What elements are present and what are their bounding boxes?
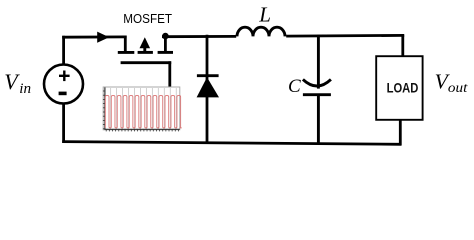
svg-text:C: C (288, 76, 301, 97)
svg-text:LOAD: LOAD (387, 81, 419, 96)
svg-text:L: L (258, 2, 271, 26)
svg-text:MOSFET: MOSFET (123, 11, 172, 26)
